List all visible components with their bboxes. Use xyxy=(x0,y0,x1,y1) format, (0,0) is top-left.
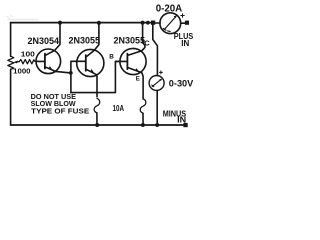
Q1 collector lead up to rail xyxy=(45,23,60,56)
wire: top supply rail xyxy=(11,22,152,24)
junction dot: Q3 collector on rail xyxy=(141,21,145,25)
wire: bottom rail xyxy=(11,124,186,126)
svg-text:2N3054: 2N3054 xyxy=(28,36,60,46)
junction dot: voltmeter feed on rail xyxy=(146,21,150,25)
transistor Q1 2N3054 circle xyxy=(36,49,61,74)
wire: voltmeter down to bottom rail xyxy=(156,90,158,125)
Q3 base bar xyxy=(126,54,128,70)
wire: fuse F2 bottom to rail xyxy=(142,113,144,125)
svg-text:2N3055: 2N3055 xyxy=(69,35,101,45)
Q3 collector lead up to rail xyxy=(128,23,145,56)
svg-text:IN: IN xyxy=(177,115,186,124)
junction dot: Q2 collector on rail xyxy=(97,21,101,25)
svg-text:1000: 1000 xyxy=(13,67,30,76)
transistor Q2 2N3055 circle xyxy=(77,49,104,76)
ammeter M1 circle xyxy=(160,13,181,34)
Q1 base lead xyxy=(36,60,45,62)
Q2 emitter lead with arrow down to fuse xyxy=(86,69,97,96)
junction dot: Q1 emitter / base bus node xyxy=(69,71,73,75)
voltmeter needle xyxy=(152,80,161,87)
svg-text:10A: 10A xyxy=(113,104,125,113)
wire: fuse F1 bottom to rail xyxy=(96,113,98,125)
resistor 100 body (horizontal zigzag) xyxy=(19,60,36,64)
Q2 base lead and wire down to base bus xyxy=(71,61,86,92)
terminal square: minus-in end of bottom rail xyxy=(183,123,187,127)
ammeter plus sign xyxy=(181,14,184,17)
Q1 emitter lead with arrow xyxy=(45,67,71,73)
svg-text:TYPE OF FUSE: TYPE OF FUSE xyxy=(31,106,89,115)
wire: left vertical below potentiometer to bottom rail xyxy=(10,69,12,125)
scan smudge (decorative, not labelled as component) xyxy=(8,19,38,21)
wire: base bus from Q1 emitter node to Q3 base xyxy=(71,61,120,92)
ammeter M1 right terminal square (PLUS IN) xyxy=(185,21,189,25)
svg-text:B: B xyxy=(109,54,114,61)
voltmeter scale tick xyxy=(152,85,154,87)
ammeter scale ticks xyxy=(163,28,166,30)
junction dot: fuse F2 on bottom rail xyxy=(141,123,145,127)
svg-text:0-30V: 0-30V xyxy=(169,78,194,88)
voltmeter plus sign xyxy=(159,71,162,74)
wire: rail down to voltmeter xyxy=(153,25,158,76)
svg-text:IN: IN xyxy=(181,39,189,48)
svg-text:2N3055: 2N3055 xyxy=(114,35,146,45)
svg-text:100: 100 xyxy=(21,49,35,58)
wire: left vertical from top rail down to potentiometer xyxy=(10,23,12,57)
svg-text:0-20A: 0-20A xyxy=(156,4,183,15)
Q1 base bar xyxy=(44,54,46,69)
wire: square to ammeter xyxy=(155,22,160,24)
potentiometer wiper arrow xyxy=(15,61,19,64)
Q3 emitter lead with arrow down to fuse xyxy=(128,68,143,99)
Q3 base lead xyxy=(115,60,127,62)
Q2 base bar xyxy=(85,55,87,71)
fuse F1 10A (left squiggle) xyxy=(94,98,100,113)
svg-text:E: E xyxy=(136,75,140,82)
transistor Q3 2N3055 circle xyxy=(120,48,146,74)
junction dot: fuse F1 on bottom rail xyxy=(95,123,99,127)
junction dot: Q1 collector on rail xyxy=(58,21,62,25)
Q2 collector lead up to rail xyxy=(86,23,99,57)
ammeter M1 left terminal square xyxy=(151,21,155,25)
svg-text:C: C xyxy=(144,39,150,48)
fuse F2 10A (right squiggle) xyxy=(140,99,146,114)
junction dot: voltmeter on bottom rail xyxy=(155,123,159,127)
potentiometer 1000 body (vertical zigzag) xyxy=(8,56,14,69)
wire: ammeter to plus-in terminal xyxy=(181,22,185,24)
ammeter needle xyxy=(164,17,176,30)
voltmeter M2 circle xyxy=(149,76,164,91)
